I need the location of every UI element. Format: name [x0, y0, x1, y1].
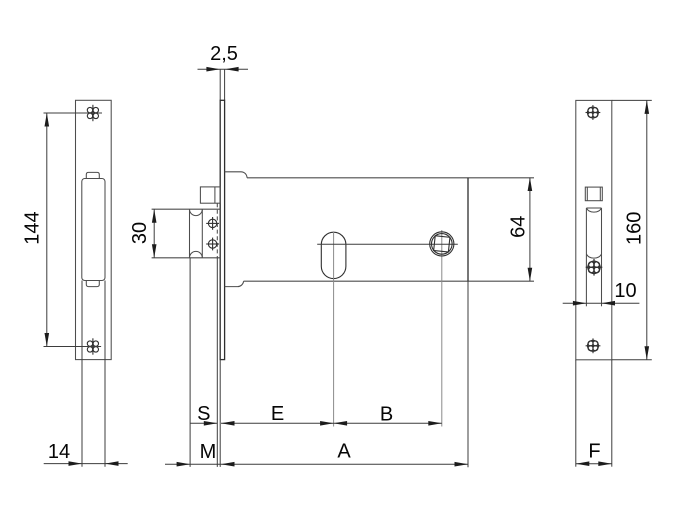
right view bottom screw: [586, 338, 601, 353]
svg-text:B: B: [380, 404, 393, 426]
dim 64 arrow bottom: [528, 268, 533, 282]
keyhole oval: [321, 232, 346, 278]
right view slot top: [586, 207, 601, 209]
dim S arrow: [204, 421, 218, 426]
cylinder roller left edge: [189, 209, 191, 258]
right view slot right edge: [601, 208, 603, 306]
dim 144 extension bottom: [44, 346, 102, 348]
right view square hole: [585, 187, 602, 201]
dim 14 extension right: [104, 281, 106, 467]
case bottom lip: [225, 281, 244, 286]
cylinder roller top arc: [190, 209, 203, 215]
dim F extension right: [611, 360, 613, 467]
case right extension down: [467, 281, 469, 467]
left view case slot (rounded): [82, 179, 105, 281]
dim E arrow right: [320, 421, 334, 426]
dim F extension left: [575, 360, 577, 467]
dim A arrow left: [221, 462, 235, 467]
dim M arrow (outside): [177, 462, 191, 467]
cylinder housing top: [152, 208, 221, 210]
follower outer circle: [430, 232, 454, 256]
dim F arrow right: [598, 461, 612, 466]
dim 10 arrow right: [602, 301, 616, 306]
dim 10 arrow left: [573, 301, 587, 306]
dim 30 line: [153, 209, 155, 258]
right view slot left edge: [585, 208, 587, 306]
svg-text:160: 160: [624, 212, 646, 245]
dim 144 arrow top: [45, 113, 50, 127]
cylinder roller bottom arc: [190, 251, 203, 257]
dim 2,5 line: [198, 68, 249, 70]
dim A arrow right: [455, 462, 469, 467]
dim F arrow left: [576, 461, 590, 466]
dim 160 line: [646, 100, 648, 359]
svg-text:A: A: [337, 441, 351, 463]
svg-text:30: 30: [129, 222, 151, 244]
svg-text:E: E: [271, 403, 284, 425]
hidden edge dashed: [216, 203, 218, 258]
dim 2,5 arrow left: [206, 67, 220, 72]
case front lower edge: [216, 258, 218, 467]
dim 14 arrow right: [105, 461, 119, 466]
follower axis vertical line: [441, 230, 443, 427]
right view slot top dip: [586, 208, 601, 212]
case right edge: [467, 178, 469, 281]
dim B arrow left: [334, 421, 348, 426]
dim 14 line: [44, 463, 128, 465]
latch bolt bevel line: [214, 187, 216, 203]
dim 160 arrow top: [645, 100, 650, 114]
left view top tab: [86, 172, 99, 178]
faceplate extension lines above: [219, 69, 221, 100]
mounting screw lower: [206, 238, 219, 251]
faceplate extension below: [219, 360, 221, 467]
dim 64 arrow top: [528, 178, 533, 192]
dim E arrow left: [221, 421, 235, 426]
right view slot screw: [586, 259, 603, 276]
dim F line: [576, 463, 612, 465]
dim S line: [191, 422, 218, 424]
left view bottom screw: [85, 338, 101, 354]
key axis vertical line: [333, 232, 335, 427]
left view top screw: [85, 105, 101, 121]
svg-text:14: 14: [48, 441, 70, 463]
follower square: [434, 236, 450, 252]
dim M/A line: [165, 463, 468, 465]
dim 64 line: [529, 178, 531, 282]
dim 144 extension top: [44, 112, 103, 114]
dim B arrow right: [428, 421, 442, 426]
dim 160 arrow bottom: [645, 346, 650, 360]
case bottom edge: [244, 280, 534, 282]
dim E/B line: [221, 422, 442, 424]
svg-text:S: S: [197, 403, 210, 425]
right view square hole inner lines: [586, 187, 588, 201]
dim S extension (roller face): [189, 258, 191, 467]
dim 144 arrow bottom: [45, 333, 50, 347]
dim 10 line: [563, 302, 640, 304]
center faceplate edge view: [220, 100, 224, 359]
svg-text:F: F: [588, 441, 600, 463]
right view slot bottom bulge: [586, 254, 601, 258]
mounting screw upper: [206, 217, 219, 230]
svg-text:M: M: [200, 441, 217, 463]
dim 160 extension bottom: [612, 359, 652, 361]
dim 144 line: [46, 113, 48, 347]
svg-text:144: 144: [21, 211, 43, 244]
right view top screw: [586, 105, 601, 120]
follower inner circle: [432, 234, 453, 255]
left view faceplate outline: [76, 100, 112, 359]
dim 30 arrow top: [152, 209, 157, 223]
cylinder housing bottom: [152, 257, 221, 259]
horizontal centerline: [317, 243, 458, 245]
left view bottom tab: [86, 281, 99, 287]
svg-text:10: 10: [614, 280, 636, 302]
dim 30 arrow bottom: [152, 244, 157, 257]
dim 14 extension left: [81, 281, 83, 467]
dim 2,5 arrow right: [225, 67, 239, 72]
dim 14 arrow left: [69, 461, 83, 466]
case top lip: [225, 172, 247, 178]
right view plate outline: [576, 100, 612, 359]
svg-text:2,5: 2,5: [210, 43, 238, 65]
cylinder roller right edge: [201, 209, 203, 258]
svg-text:64: 64: [508, 216, 530, 238]
case top edge: [247, 177, 534, 179]
latch bolt: [200, 187, 220, 203]
dim 160 extension top: [612, 99, 652, 101]
